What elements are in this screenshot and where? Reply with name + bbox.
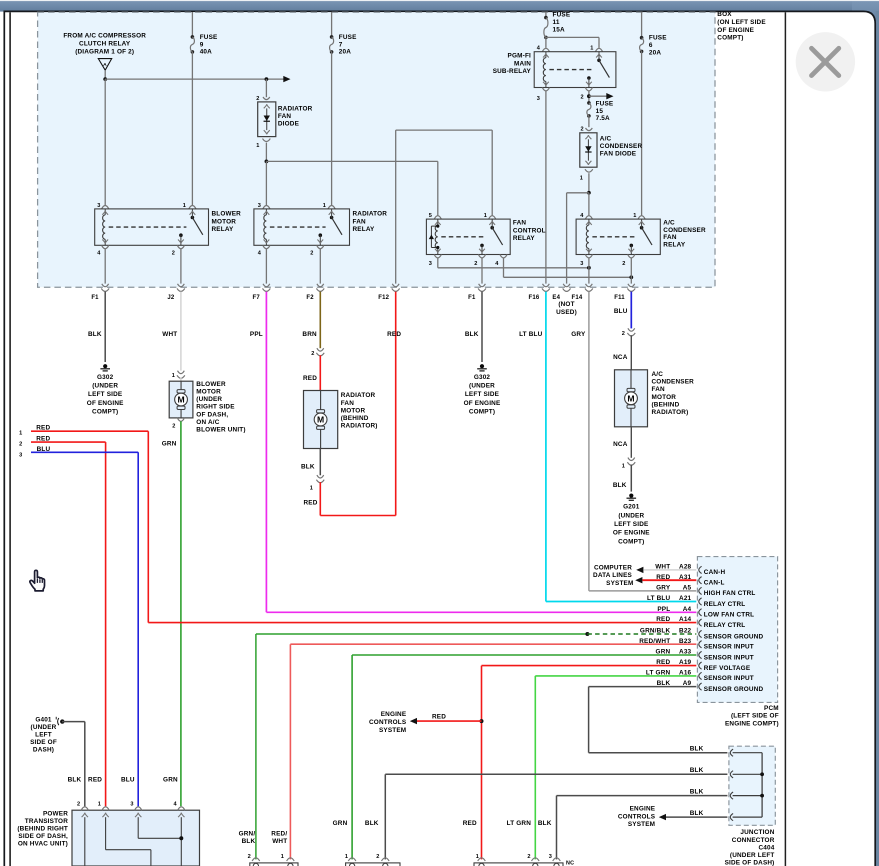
- svg-text:BLK: BLK: [690, 746, 704, 753]
- svg-text:FAN: FAN: [513, 220, 527, 227]
- svg-text:F11: F11: [614, 295, 625, 301]
- svg-text:1: 1: [310, 486, 313, 492]
- svg-text:3: 3: [258, 203, 261, 209]
- svg-text:OF ENGINE: OF ENGINE: [464, 400, 501, 407]
- svg-text:FAN: FAN: [278, 113, 292, 120]
- svg-text:COMPUTER: COMPUTER: [594, 564, 632, 571]
- svg-text:POWER: POWER: [43, 810, 68, 817]
- svg-text:1: 1: [256, 143, 259, 149]
- svg-text:F1: F1: [468, 295, 476, 301]
- svg-text:TRANSISTOR: TRANSISTOR: [25, 818, 68, 825]
- svg-text:GRY: GRY: [571, 331, 586, 338]
- svg-text:BLU: BLU: [614, 308, 628, 315]
- svg-text:1: 1: [323, 203, 326, 209]
- svg-text:MOTOR: MOTOR: [212, 218, 237, 225]
- svg-text:1: 1: [580, 176, 583, 182]
- svg-text:COMPT): COMPT): [618, 538, 644, 545]
- svg-text:CONDENSER: CONDENSER: [600, 143, 643, 150]
- svg-text:A/C: A/C: [652, 371, 664, 378]
- svg-text:SIDE OF DASH): SIDE OF DASH): [725, 860, 775, 866]
- svg-text:RED: RED: [303, 500, 317, 507]
- svg-text:1: 1: [281, 854, 284, 860]
- svg-text:RED: RED: [656, 616, 670, 623]
- svg-text:COMPT): COMPT): [469, 408, 495, 415]
- svg-text:LEFT: LEFT: [35, 732, 52, 739]
- svg-text:9: 9: [200, 41, 204, 48]
- svg-text:1: 1: [183, 203, 186, 209]
- svg-text:2: 2: [248, 854, 251, 860]
- svg-text:SYSTEM: SYSTEM: [379, 727, 406, 734]
- svg-text:PGM-FI: PGM-FI: [508, 53, 531, 60]
- svg-text:PPL: PPL: [657, 606, 670, 613]
- svg-text:2: 2: [527, 854, 530, 860]
- svg-text:RED: RED: [88, 776, 102, 783]
- svg-text:ON HVAC UNIT): ON HVAC UNIT): [18, 840, 68, 847]
- svg-text:(BEHIND: (BEHIND: [652, 401, 680, 408]
- svg-text:2: 2: [77, 802, 80, 808]
- svg-text:B22: B22: [679, 628, 692, 635]
- svg-text:M: M: [627, 393, 634, 403]
- svg-text:A14: A14: [679, 616, 692, 623]
- svg-text:A: A: [103, 62, 107, 68]
- svg-text:1: 1: [345, 854, 348, 860]
- svg-text:1: 1: [590, 45, 593, 51]
- svg-text:BLK: BLK: [365, 820, 379, 827]
- svg-text:WHT: WHT: [162, 331, 177, 338]
- svg-text:FAN: FAN: [341, 400, 355, 407]
- svg-text:LEFT SIDE: LEFT SIDE: [614, 521, 649, 528]
- svg-text:BLK: BLK: [465, 331, 479, 338]
- svg-text:G201: G201: [623, 504, 640, 511]
- svg-text:CONTROL: CONTROL: [513, 227, 546, 234]
- svg-text:BLK: BLK: [88, 331, 102, 338]
- svg-text:E4: E4: [552, 295, 560, 301]
- svg-text:GRN/: GRN/: [239, 831, 256, 838]
- svg-text:A4: A4: [683, 606, 692, 613]
- svg-text:CONDENSER: CONDENSER: [652, 379, 695, 386]
- svg-text:BRN: BRN: [302, 331, 317, 338]
- svg-text:RADIATOR): RADIATOR): [341, 423, 378, 430]
- svg-text:A21: A21: [679, 595, 692, 602]
- svg-text:NCA: NCA: [613, 354, 628, 361]
- svg-text:OF DASH,: OF DASH,: [196, 411, 228, 418]
- svg-text:1: 1: [476, 854, 479, 860]
- svg-text:BLK: BLK: [690, 789, 704, 796]
- svg-text:RELAY: RELAY: [663, 242, 686, 249]
- svg-text:RED: RED: [387, 331, 401, 338]
- svg-text:GRN: GRN: [163, 776, 178, 783]
- svg-text:1: 1: [622, 463, 625, 469]
- svg-text:3: 3: [580, 261, 583, 267]
- svg-text:PPL: PPL: [250, 331, 263, 338]
- svg-text:3: 3: [537, 96, 540, 102]
- svg-text:6: 6: [649, 42, 653, 49]
- svg-text:2: 2: [581, 127, 584, 133]
- svg-text:(BEHIND RIGHT: (BEHIND RIGHT: [17, 825, 68, 832]
- svg-text:F14: F14: [572, 295, 583, 301]
- svg-text:A19: A19: [679, 659, 692, 666]
- svg-text:FAN: FAN: [663, 234, 677, 241]
- svg-text:G302: G302: [474, 374, 491, 381]
- svg-text:11: 11: [553, 19, 560, 26]
- svg-text:G401: G401: [35, 717, 52, 724]
- svg-text:F1: F1: [91, 295, 99, 301]
- svg-text:SYSTEM: SYSTEM: [628, 821, 655, 828]
- svg-text:2: 2: [310, 250, 313, 256]
- svg-text:FAN: FAN: [353, 218, 367, 225]
- svg-text:CLUTCH RELAY: CLUTCH RELAY: [79, 41, 131, 48]
- svg-text:A/C: A/C: [600, 135, 612, 142]
- svg-text:SENSOR GROUND: SENSOR GROUND: [704, 686, 764, 693]
- svg-text:3: 3: [549, 854, 552, 860]
- svg-text:SENSOR GROUND: SENSOR GROUND: [704, 633, 764, 640]
- svg-text:A33: A33: [679, 649, 692, 656]
- svg-text:3: 3: [19, 452, 22, 458]
- svg-text:(UNDER: (UNDER: [31, 724, 57, 731]
- svg-text:OF ENGINE: OF ENGINE: [717, 27, 754, 34]
- svg-text:(UNDER LEFT: (UNDER LEFT: [730, 852, 775, 859]
- svg-text:5: 5: [429, 213, 432, 219]
- svg-text:CAN-H: CAN-H: [704, 569, 726, 576]
- svg-text:LOW FAN CTRL: LOW FAN CTRL: [704, 612, 754, 619]
- svg-text:NCA: NCA: [613, 441, 628, 448]
- svg-text:RED/: RED/: [271, 831, 287, 838]
- svg-text:A/C: A/C: [663, 220, 675, 227]
- svg-text:RADIATOR: RADIATOR: [278, 105, 313, 112]
- svg-text:A9: A9: [683, 680, 692, 687]
- svg-text:(BEHIND: (BEHIND: [341, 415, 369, 422]
- svg-text:(DIAGRAM 1 OF 2): (DIAGRAM 1 OF 2): [75, 49, 134, 56]
- svg-text:BOX: BOX: [717, 11, 732, 18]
- svg-text:BLK: BLK: [613, 482, 627, 489]
- svg-text:LEFT SIDE: LEFT SIDE: [88, 391, 123, 398]
- svg-text:RIGHT SIDE: RIGHT SIDE: [196, 404, 235, 411]
- svg-text:RELAY: RELAY: [513, 235, 536, 242]
- svg-text:15: 15: [596, 108, 604, 115]
- svg-text:BLK: BLK: [690, 767, 704, 774]
- svg-text:RED: RED: [303, 375, 317, 382]
- svg-text:1: 1: [633, 213, 636, 219]
- svg-text:RADIATOR: RADIATOR: [353, 211, 388, 218]
- svg-text:40A: 40A: [200, 49, 212, 56]
- svg-text:LT BLU: LT BLU: [519, 331, 543, 338]
- svg-text:RELAY: RELAY: [212, 226, 235, 233]
- svg-text:3: 3: [429, 261, 432, 267]
- svg-text:M: M: [317, 415, 324, 425]
- svg-text:1: 1: [172, 373, 175, 379]
- svg-text:RELAY: RELAY: [353, 226, 376, 233]
- svg-text:SYSTEM: SYSTEM: [606, 580, 633, 587]
- svg-text:FUSE: FUSE: [200, 34, 218, 41]
- svg-text:OF ENGINE: OF ENGINE: [613, 530, 650, 537]
- svg-text:(LEFT SIDE OF: (LEFT SIDE OF: [731, 713, 779, 720]
- svg-text:(ON LEFT SIDE: (ON LEFT SIDE: [717, 19, 766, 26]
- svg-text:SUB-RELAY: SUB-RELAY: [493, 68, 532, 75]
- svg-text:MOTOR: MOTOR: [196, 389, 221, 396]
- svg-text:F12: F12: [378, 295, 389, 301]
- svg-text:BLK: BLK: [68, 776, 82, 783]
- svg-text:BLK: BLK: [301, 463, 315, 470]
- svg-text:M: M: [177, 395, 184, 405]
- svg-text:2: 2: [622, 331, 625, 337]
- svg-text:B23: B23: [679, 638, 692, 645]
- svg-text:A16: A16: [679, 670, 692, 677]
- svg-text:2: 2: [172, 423, 175, 429]
- svg-text:LT GRN: LT GRN: [507, 820, 532, 827]
- svg-text:CONNECTOR: CONNECTOR: [732, 837, 775, 844]
- svg-text:SENSOR INPUT: SENSOR INPUT: [704, 654, 754, 661]
- svg-text:SIDE OF DASH,: SIDE OF DASH,: [18, 833, 68, 840]
- svg-text:2: 2: [581, 95, 584, 101]
- svg-text:FUSE: FUSE: [596, 100, 614, 107]
- svg-text:ENGINE: ENGINE: [381, 711, 407, 718]
- svg-text:BLOWER UNIT): BLOWER UNIT): [196, 427, 245, 434]
- svg-text:SENSOR INPUT: SENSOR INPUT: [704, 675, 754, 682]
- svg-text:PCM: PCM: [764, 705, 779, 712]
- svg-text:SENSOR INPUT: SENSOR INPUT: [704, 644, 754, 651]
- svg-text:USED): USED): [556, 309, 577, 316]
- svg-text:GRN/BLK: GRN/BLK: [640, 628, 671, 635]
- svg-text:ON A/C: ON A/C: [196, 419, 219, 426]
- svg-text:F16: F16: [529, 295, 540, 301]
- svg-text:A28: A28: [679, 564, 692, 571]
- svg-text:FUSE: FUSE: [339, 34, 357, 41]
- svg-text:(UNDER: (UNDER: [92, 383, 118, 390]
- svg-text:A31: A31: [679, 574, 692, 581]
- svg-text:2: 2: [256, 96, 259, 102]
- svg-text:CAN-L: CAN-L: [704, 580, 725, 587]
- svg-text:JUNCTION: JUNCTION: [740, 829, 774, 836]
- svg-text:20A: 20A: [339, 49, 351, 56]
- svg-text:(UNDER: (UNDER: [196, 396, 222, 403]
- svg-text:1: 1: [484, 213, 487, 219]
- svg-text:FROM A/C COMPRESSOR: FROM A/C COMPRESSOR: [63, 33, 146, 40]
- svg-text:LEFT SIDE: LEFT SIDE: [465, 391, 500, 398]
- svg-text:LT BLU: LT BLU: [647, 595, 671, 602]
- svg-text:DASH): DASH): [33, 746, 54, 753]
- svg-text:2: 2: [474, 261, 477, 267]
- svg-text:1: 1: [19, 430, 22, 436]
- svg-text:2: 2: [376, 854, 379, 860]
- svg-text:GRN: GRN: [656, 649, 671, 656]
- svg-text:BLU: BLU: [121, 776, 135, 783]
- svg-text:LT GRN: LT GRN: [646, 670, 671, 677]
- svg-text:GRN: GRN: [333, 820, 348, 827]
- svg-text:ENGINE: ENGINE: [630, 806, 656, 813]
- svg-text:SIDE OF: SIDE OF: [30, 739, 57, 746]
- svg-text:BLK: BLK: [690, 810, 704, 817]
- svg-text:GRY: GRY: [656, 585, 671, 592]
- svg-text:WHT: WHT: [655, 564, 670, 571]
- svg-text:BLK: BLK: [657, 680, 671, 687]
- svg-text:J2: J2: [167, 295, 175, 301]
- svg-text:G302: G302: [97, 374, 114, 381]
- svg-text:3: 3: [130, 802, 133, 808]
- svg-text:COMPT): COMPT): [92, 408, 118, 415]
- svg-text:DIODE: DIODE: [278, 120, 300, 127]
- svg-text:REF VOLTAGE: REF VOLTAGE: [704, 665, 751, 672]
- svg-text:RED: RED: [656, 659, 670, 666]
- svg-text:20A: 20A: [649, 50, 661, 57]
- svg-text:OF ENGINE: OF ENGINE: [87, 400, 124, 407]
- svg-text:HIGH FAN CTRL: HIGH FAN CTRL: [704, 590, 756, 597]
- svg-text:BLK: BLK: [538, 820, 552, 827]
- svg-text:1: 1: [98, 802, 101, 808]
- svg-text:(UNDER: (UNDER: [469, 383, 495, 390]
- svg-text:MAIN: MAIN: [514, 60, 531, 67]
- svg-text:RED: RED: [656, 574, 670, 581]
- svg-text:RELAY CTRL: RELAY CTRL: [704, 622, 746, 629]
- svg-text:BLOWER: BLOWER: [196, 381, 226, 388]
- svg-text:F2: F2: [306, 295, 314, 301]
- svg-text:FAN DIODE: FAN DIODE: [600, 150, 637, 157]
- svg-text:C404: C404: [759, 844, 775, 851]
- svg-text:CONDENSER: CONDENSER: [663, 227, 706, 234]
- svg-text:FUSE: FUSE: [649, 35, 667, 42]
- svg-text:RED: RED: [463, 820, 477, 827]
- svg-text:RED/WHT: RED/WHT: [639, 638, 670, 645]
- svg-text:(UNDER: (UNDER: [618, 512, 644, 519]
- svg-text:COMPT): COMPT): [717, 35, 743, 42]
- svg-text:(NOT: (NOT: [558, 301, 574, 308]
- svg-text:DATA LINES: DATA LINES: [593, 572, 633, 579]
- svg-text:A5: A5: [683, 585, 692, 592]
- svg-text:F7: F7: [253, 295, 261, 301]
- svg-text:2: 2: [19, 442, 22, 448]
- svg-text:BLOWER: BLOWER: [212, 211, 242, 218]
- svg-text:7.5A: 7.5A: [596, 115, 610, 122]
- svg-text:CONTROLS: CONTROLS: [369, 719, 407, 726]
- svg-text:NC: NC: [566, 861, 574, 866]
- svg-text:ENGINE COMPT): ENGINE COMPT): [725, 720, 779, 727]
- svg-text:2: 2: [622, 261, 625, 267]
- svg-text:2: 2: [172, 250, 175, 256]
- svg-text:RELAY CTRL: RELAY CTRL: [704, 601, 746, 608]
- svg-text:WHT: WHT: [272, 838, 287, 845]
- svg-text:MOTOR: MOTOR: [652, 394, 677, 401]
- svg-text:FUSE: FUSE: [553, 12, 571, 19]
- svg-text:2: 2: [311, 351, 314, 357]
- svg-text:7: 7: [339, 41, 343, 48]
- svg-text:BLK: BLK: [242, 838, 256, 845]
- svg-text:MOTOR: MOTOR: [341, 407, 366, 414]
- svg-text:3: 3: [97, 203, 100, 209]
- svg-text:FAN: FAN: [652, 386, 666, 393]
- svg-text:15A: 15A: [553, 27, 565, 34]
- svg-text:RADIATOR): RADIATOR): [652, 409, 689, 416]
- svg-text:RED: RED: [432, 714, 446, 721]
- svg-text:CONTROLS: CONTROLS: [618, 813, 656, 820]
- svg-text:GRN: GRN: [162, 441, 177, 448]
- svg-text:RADIATOR: RADIATOR: [341, 392, 376, 399]
